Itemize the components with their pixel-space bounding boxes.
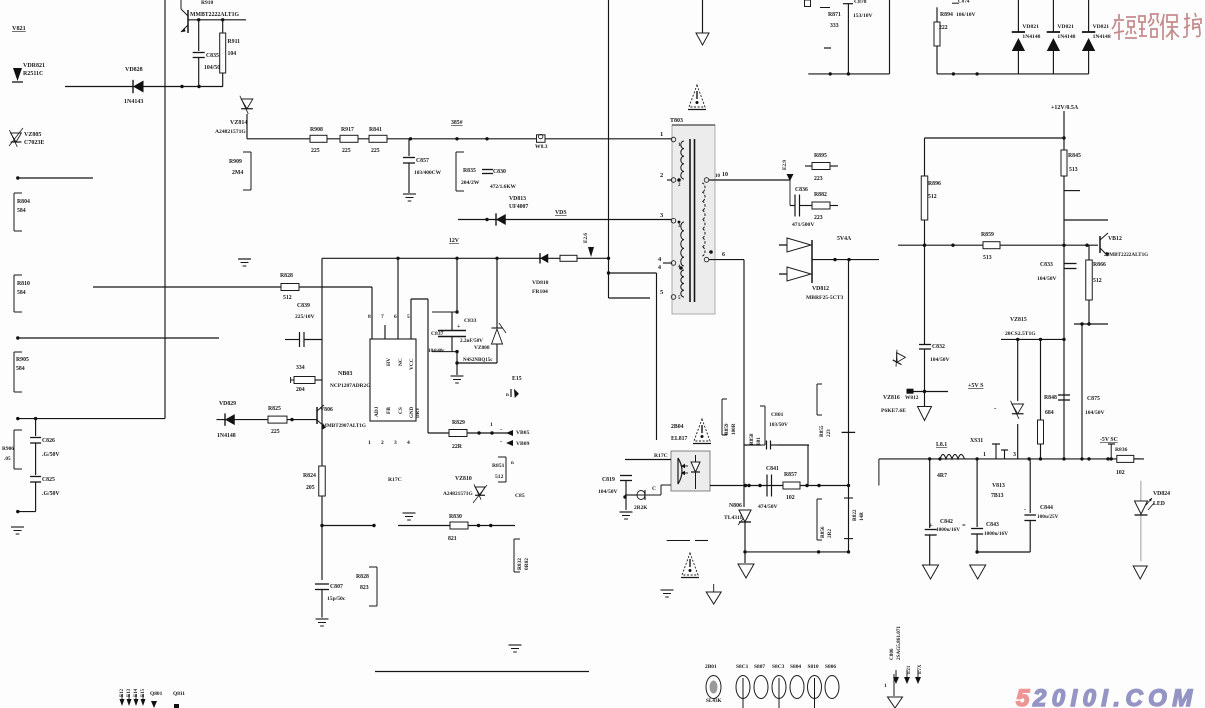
svg-text:C833: C833 — [464, 318, 477, 324]
svg-text:R857: R857 — [784, 472, 797, 478]
svg-text:1N4148: 1N4148 — [1022, 34, 1040, 40]
svg-text:+: + — [457, 324, 461, 330]
svg-text:C874: C874 — [958, 0, 970, 5]
svg-text:R866: R866 — [1093, 262, 1106, 268]
svg-text:7B13: 7B13 — [991, 493, 1004, 499]
svg-text:.G/50V: .G/50V — [42, 491, 60, 497]
svg-text:R836: R836 — [1115, 447, 1128, 453]
svg-text:334: 334 — [296, 365, 305, 371]
svg-text:R910: R910 — [201, 0, 213, 6]
svg-text:1000u/16V: 1000u/16V — [936, 527, 960, 533]
svg-text:C830: C830 — [493, 169, 506, 175]
svg-text:R909: R909 — [229, 159, 242, 165]
svg-text:821: 821 — [448, 536, 457, 542]
svg-text:VZ816: VZ816 — [883, 395, 900, 401]
svg-text:R859: R859 — [724, 423, 730, 435]
svg-text:E2.9: E2.9 — [782, 160, 788, 170]
svg-text:C819: C819 — [602, 477, 615, 483]
svg-text:2R2: 2R2 — [827, 529, 833, 538]
svg-text:104/50V: 104/50V — [930, 357, 950, 363]
svg-text:12V: 12V — [449, 238, 460, 244]
svg-text:XS31: XS31 — [970, 438, 983, 444]
svg-text:R882: R882 — [814, 192, 827, 198]
svg-text:ADJ: ADJ — [374, 406, 380, 417]
svg-text:2.2nF/50V: 2.2nF/50V — [460, 338, 483, 344]
svg-text:1: 1 — [660, 131, 663, 138]
svg-text:MMBT2222ALT1G: MMBT2222ALT1G — [190, 12, 240, 18]
svg-text:10: 10 — [715, 174, 721, 179]
svg-text:C837: C837 — [431, 331, 444, 337]
svg-text:E2.6: E2.6 — [583, 233, 589, 243]
svg-text:C844: C844 — [1040, 505, 1053, 511]
svg-text:2: 2 — [381, 440, 384, 446]
svg-text:684: 684 — [1045, 410, 1054, 416]
svg-text:EL817: EL817 — [671, 436, 688, 442]
svg-text:.G/50V: .G/50V — [42, 452, 60, 458]
svg-text:C870: C870 — [854, 0, 867, 5]
svg-text:LED: LED — [1153, 501, 1165, 507]
svg-text:R824: R824 — [303, 473, 316, 479]
svg-text:Q811: Q811 — [173, 691, 185, 697]
svg-text:VZ815: VZ815 — [1010, 317, 1027, 323]
svg-text:R804: R804 — [17, 199, 30, 205]
svg-text:225/10V: 225/10V — [295, 314, 315, 320]
svg-text:R828: R828 — [280, 273, 293, 279]
svg-text:MBRF25-5CT3: MBRF25-5CT3 — [806, 295, 843, 301]
svg-text:104/40c: 104/40c — [428, 348, 445, 354]
svg-text:S806: S806 — [825, 664, 836, 670]
svg-text:C806: C806 — [889, 648, 895, 660]
svg-text:1N4148: 1N4148 — [1093, 34, 1111, 40]
svg-text:225: 225 — [371, 148, 380, 154]
svg-text:R856: R856 — [820, 526, 826, 538]
svg-text:DRV: DRV — [416, 407, 421, 418]
svg-text:6: 6 — [722, 252, 725, 258]
svg-text:474/50V: 474/50V — [758, 504, 778, 510]
svg-text:VD813: VD813 — [509, 196, 526, 202]
svg-text:VD810: VD810 — [532, 280, 549, 286]
svg-text:225: 225 — [311, 148, 320, 154]
svg-text:1000u/16V: 1000u/16V — [984, 531, 1008, 537]
svg-text:1N4148: 1N4148 — [217, 433, 236, 439]
svg-text:E14: E14 — [134, 688, 139, 697]
svg-text:E7X: E7X — [918, 664, 923, 674]
svg-text:VB05: VB05 — [516, 430, 530, 436]
svg-text:C843: C843 — [986, 522, 999, 528]
svg-text:225: 225 — [271, 429, 280, 435]
svg-text:4: 4 — [407, 440, 410, 446]
svg-text:R832: R832 — [517, 558, 523, 570]
svg-text:R17C: R17C — [388, 477, 402, 483]
svg-text:C826: C826 — [42, 438, 55, 444]
svg-text:103/50V: 103/50V — [769, 422, 788, 428]
svg-text:C875: C875 — [1087, 396, 1100, 402]
svg-text:R845: R845 — [1068, 153, 1081, 159]
svg-text:C7023E: C7023E — [24, 140, 44, 146]
svg-text:MMBT2907ALT1G: MMBT2907ALT1G — [322, 423, 366, 429]
svg-text:V821: V821 — [12, 25, 26, 32]
svg-text:FR104: FR104 — [532, 289, 548, 295]
svg-text:+: + — [929, 522, 933, 529]
svg-text:2: 2 — [660, 172, 663, 179]
svg-text:Q801: Q801 — [150, 691, 163, 697]
svg-text:HV: HV — [386, 358, 392, 366]
svg-text:1N4148: 1N4148 — [1057, 34, 1075, 40]
svg-text:S810: S810 — [808, 664, 819, 670]
svg-text:20MBT2222ALT1G: 20MBT2222ALT1G — [1104, 252, 1148, 258]
svg-text:7: 7 — [381, 314, 384, 320]
svg-text:VD824: VD824 — [1153, 491, 1170, 497]
svg-text:R911: R911 — [228, 39, 241, 45]
svg-text:223: 223 — [814, 215, 823, 221]
svg-text:5: 5 — [407, 314, 410, 320]
svg-text:1: 1 — [983, 452, 986, 458]
svg-text:R848: R848 — [1044, 395, 1057, 401]
svg-text:-: - — [500, 438, 502, 445]
svg-text:NC: NC — [398, 358, 404, 366]
svg-text:VD821: VD821 — [1093, 24, 1110, 30]
svg-text:VB09: VB09 — [516, 441, 530, 447]
svg-text:VB12: VB12 — [1108, 236, 1122, 242]
svg-text:E21: E21 — [907, 665, 912, 674]
svg-text:R2511C: R2511C — [23, 71, 43, 77]
svg-text:C839: C839 — [297, 303, 310, 309]
svg-text:R830: R830 — [449, 514, 462, 520]
svg-text:513: 513 — [983, 255, 992, 261]
svg-text:R917: R917 — [341, 127, 354, 133]
svg-text:CS: CS — [398, 407, 404, 414]
svg-text:20I0I.COM: 20I0I.COM — [1032, 685, 1198, 708]
svg-text:3: 3 — [394, 440, 397, 446]
svg-text:R859: R859 — [981, 232, 994, 238]
svg-text:E12: E12 — [120, 688, 125, 697]
svg-text:T803: T803 — [670, 118, 683, 124]
svg-text:=: = — [962, 522, 966, 529]
svg-text:3: 3 — [1013, 452, 1016, 458]
svg-text:4: 4 — [658, 265, 661, 271]
svg-text:2R2K: 2R2K — [634, 505, 648, 511]
svg-text:S8C3: S8C3 — [772, 664, 785, 670]
svg-text:SL43K: SL43K — [706, 698, 722, 704]
svg-text:225: 225 — [342, 148, 351, 154]
svg-text:584: 584 — [17, 208, 26, 214]
svg-text:512: 512 — [495, 474, 504, 480]
svg-text:NCP1207ADR2G: NCP1207ADR2G — [330, 383, 371, 389]
svg-text:14R: 14R — [859, 512, 865, 521]
svg-text:C836: C836 — [795, 187, 808, 193]
svg-text:584: 584 — [16, 366, 25, 372]
svg-text:5: 5 — [1016, 685, 1030, 708]
svg-text:R896: R896 — [928, 181, 941, 187]
svg-text:S8C1: S8C1 — [736, 664, 749, 670]
svg-text:204/2W: 204/2W — [461, 180, 480, 186]
svg-text:222: 222 — [939, 25, 948, 31]
svg-text:R905: R905 — [16, 357, 29, 363]
svg-text:V806: V806 — [320, 407, 333, 413]
svg-text:S807: S807 — [754, 664, 765, 670]
svg-text:-: - — [1024, 506, 1026, 513]
svg-text:106/10V: 106/10V — [956, 12, 976, 18]
svg-text:153/10V: 153/10V — [853, 13, 873, 19]
svg-text:6: 6 — [394, 314, 397, 320]
svg-text:513: 513 — [1069, 167, 1078, 173]
svg-text:205: 205 — [306, 485, 315, 491]
svg-text:.05: .05 — [4, 456, 11, 462]
svg-text:C857: C857 — [416, 158, 429, 164]
svg-text:C: C — [652, 486, 656, 492]
svg-text:R906: R906 — [2, 446, 14, 452]
svg-text:FB: FB — [386, 407, 392, 414]
svg-text:VZ808: VZ808 — [474, 345, 490, 351]
svg-text:R858: R858 — [749, 433, 755, 445]
svg-text:385#: 385# — [451, 120, 463, 126]
svg-text:TL431L: TL431L — [724, 515, 744, 521]
svg-text:+5V S: +5V S — [968, 383, 984, 389]
svg-text:10: 10 — [722, 172, 728, 178]
svg-text:VCC: VCC — [409, 358, 415, 370]
svg-text:VDS: VDS — [555, 210, 567, 216]
svg-text:C825: C825 — [42, 477, 55, 483]
svg-text:102: 102 — [1116, 470, 1125, 476]
svg-text:512: 512 — [1093, 278, 1102, 284]
svg-text:C801: C801 — [771, 412, 784, 418]
svg-text:100R: 100R — [731, 423, 737, 435]
svg-text:223: 223 — [814, 176, 823, 182]
svg-text:R828: R828 — [356, 574, 369, 580]
svg-text:104/50V: 104/50V — [598, 489, 618, 495]
svg-text:E15: E15 — [512, 376, 522, 382]
svg-text:584: 584 — [17, 290, 26, 296]
svg-text:2SAG5.861.071: 2SAG5.861.071 — [896, 626, 902, 660]
svg-text:5V4A: 5V4A — [837, 236, 852, 242]
svg-text:W812: W812 — [905, 395, 919, 401]
svg-text:1: 1 — [884, 683, 887, 689]
svg-text:4R7: 4R7 — [937, 473, 947, 479]
svg-text:R825: R825 — [268, 406, 281, 412]
svg-text:104/50V: 104/50V — [1037, 276, 1057, 282]
svg-text:R908: R908 — [310, 127, 323, 133]
svg-text:W8.3: W8.3 — [535, 144, 548, 150]
svg-text:C841: C841 — [766, 466, 779, 472]
svg-text:R871: R871 — [828, 12, 841, 18]
svg-text:223: 223 — [826, 429, 832, 437]
svg-text:2B04: 2B04 — [671, 424, 684, 430]
svg-text:C85: C85 — [515, 493, 525, 499]
svg-text:512: 512 — [928, 194, 937, 200]
svg-text:L8.1: L8.1 — [936, 442, 947, 448]
svg-text:A24821571G: A24821571G — [215, 129, 246, 135]
svg-text:0R02: 0R02 — [524, 558, 530, 570]
svg-text:NB03: NB03 — [338, 371, 352, 377]
svg-text:R851: R851 — [492, 463, 505, 469]
svg-text:VZ805: VZ805 — [24, 132, 41, 138]
svg-text:2M4: 2M4 — [232, 170, 243, 176]
svg-text:22R: 22R — [452, 444, 463, 450]
svg-text:R855: R855 — [819, 425, 825, 437]
svg-text:823: 823 — [360, 585, 369, 591]
svg-text:104: 104 — [228, 51, 237, 57]
svg-text:C842: C842 — [940, 519, 953, 525]
svg-text:R835: R835 — [463, 168, 476, 174]
svg-text:8: 8 — [368, 314, 371, 320]
svg-text:R822: R822 — [852, 509, 858, 521]
svg-text:102: 102 — [786, 495, 795, 501]
svg-text:-5V SC: -5V SC — [1100, 437, 1118, 443]
svg-text:VZ814: VZ814 — [230, 120, 247, 126]
svg-text:1: 1 — [490, 422, 493, 428]
svg-text:R895: R895 — [814, 153, 827, 159]
svg-text:C832: C832 — [932, 344, 945, 350]
svg-text:S804: S804 — [790, 664, 801, 670]
svg-text:2B01: 2B01 — [705, 664, 717, 670]
svg-text:GND: GND — [410, 407, 415, 419]
svg-text:R841: R841 — [369, 127, 382, 133]
svg-text:C807: C807 — [330, 584, 343, 590]
svg-text:+12V/0.5A: +12V/0.5A — [1051, 105, 1079, 111]
svg-text:VZ810: VZ810 — [455, 476, 472, 482]
svg-text:R894: R894 — [940, 12, 953, 18]
svg-text:204: 204 — [296, 387, 305, 393]
svg-text:VDR821: VDR821 — [23, 63, 45, 69]
svg-text:1N4143: 1N4143 — [124, 99, 143, 105]
svg-text:VD812: VD812 — [812, 286, 829, 292]
svg-text:C835: C835 — [206, 53, 219, 59]
svg-text:103/400CW: 103/400CW — [414, 170, 442, 176]
svg-text:N4S2NBQ15c: N4S2NBQ15c — [463, 358, 493, 363]
svg-text:-: - — [1141, 456, 1143, 463]
svg-text:V813: V813 — [992, 483, 1005, 489]
svg-text:A24821571G: A24821571G — [443, 491, 473, 497]
svg-text:681: 681 — [756, 437, 762, 445]
svg-text:n: n — [511, 461, 514, 466]
svg-text:UF4007: UF4007 — [509, 204, 528, 210]
svg-text:104/50V: 104/50V — [1085, 410, 1105, 416]
svg-text:VD829: VD829 — [219, 401, 236, 407]
svg-text:-: - — [500, 426, 502, 433]
svg-text:15p/50c: 15p/50c — [327, 596, 346, 602]
svg-text:100u/25V: 100u/25V — [1037, 514, 1059, 520]
svg-text:R17C: R17C — [654, 453, 668, 459]
svg-text:N806: N806 — [729, 503, 742, 509]
svg-text:n: n — [506, 393, 509, 398]
svg-text:471/500V: 471/500V — [792, 222, 814, 228]
svg-text:VD821: VD821 — [1057, 24, 1074, 30]
svg-text:E13: E13 — [127, 688, 132, 697]
svg-text:E15: E15 — [141, 688, 146, 697]
svg-text:1: 1 — [368, 440, 371, 446]
svg-text:VD821: VD821 — [1022, 24, 1039, 30]
svg-text:R810: R810 — [17, 281, 30, 287]
svg-text:C833: C833 — [1040, 262, 1053, 268]
svg-text:512: 512 — [283, 295, 292, 301]
svg-text:333: 333 — [830, 23, 839, 29]
svg-text:20CS2.5T1G: 20CS2.5T1G — [1005, 331, 1036, 337]
svg-text:R829: R829 — [452, 420, 465, 426]
svg-text:P6KE7.6E: P6KE7.6E — [881, 408, 906, 414]
svg-text:VD828: VD828 — [125, 67, 143, 73]
svg-text:472/1.6KW: 472/1.6KW — [490, 184, 517, 190]
